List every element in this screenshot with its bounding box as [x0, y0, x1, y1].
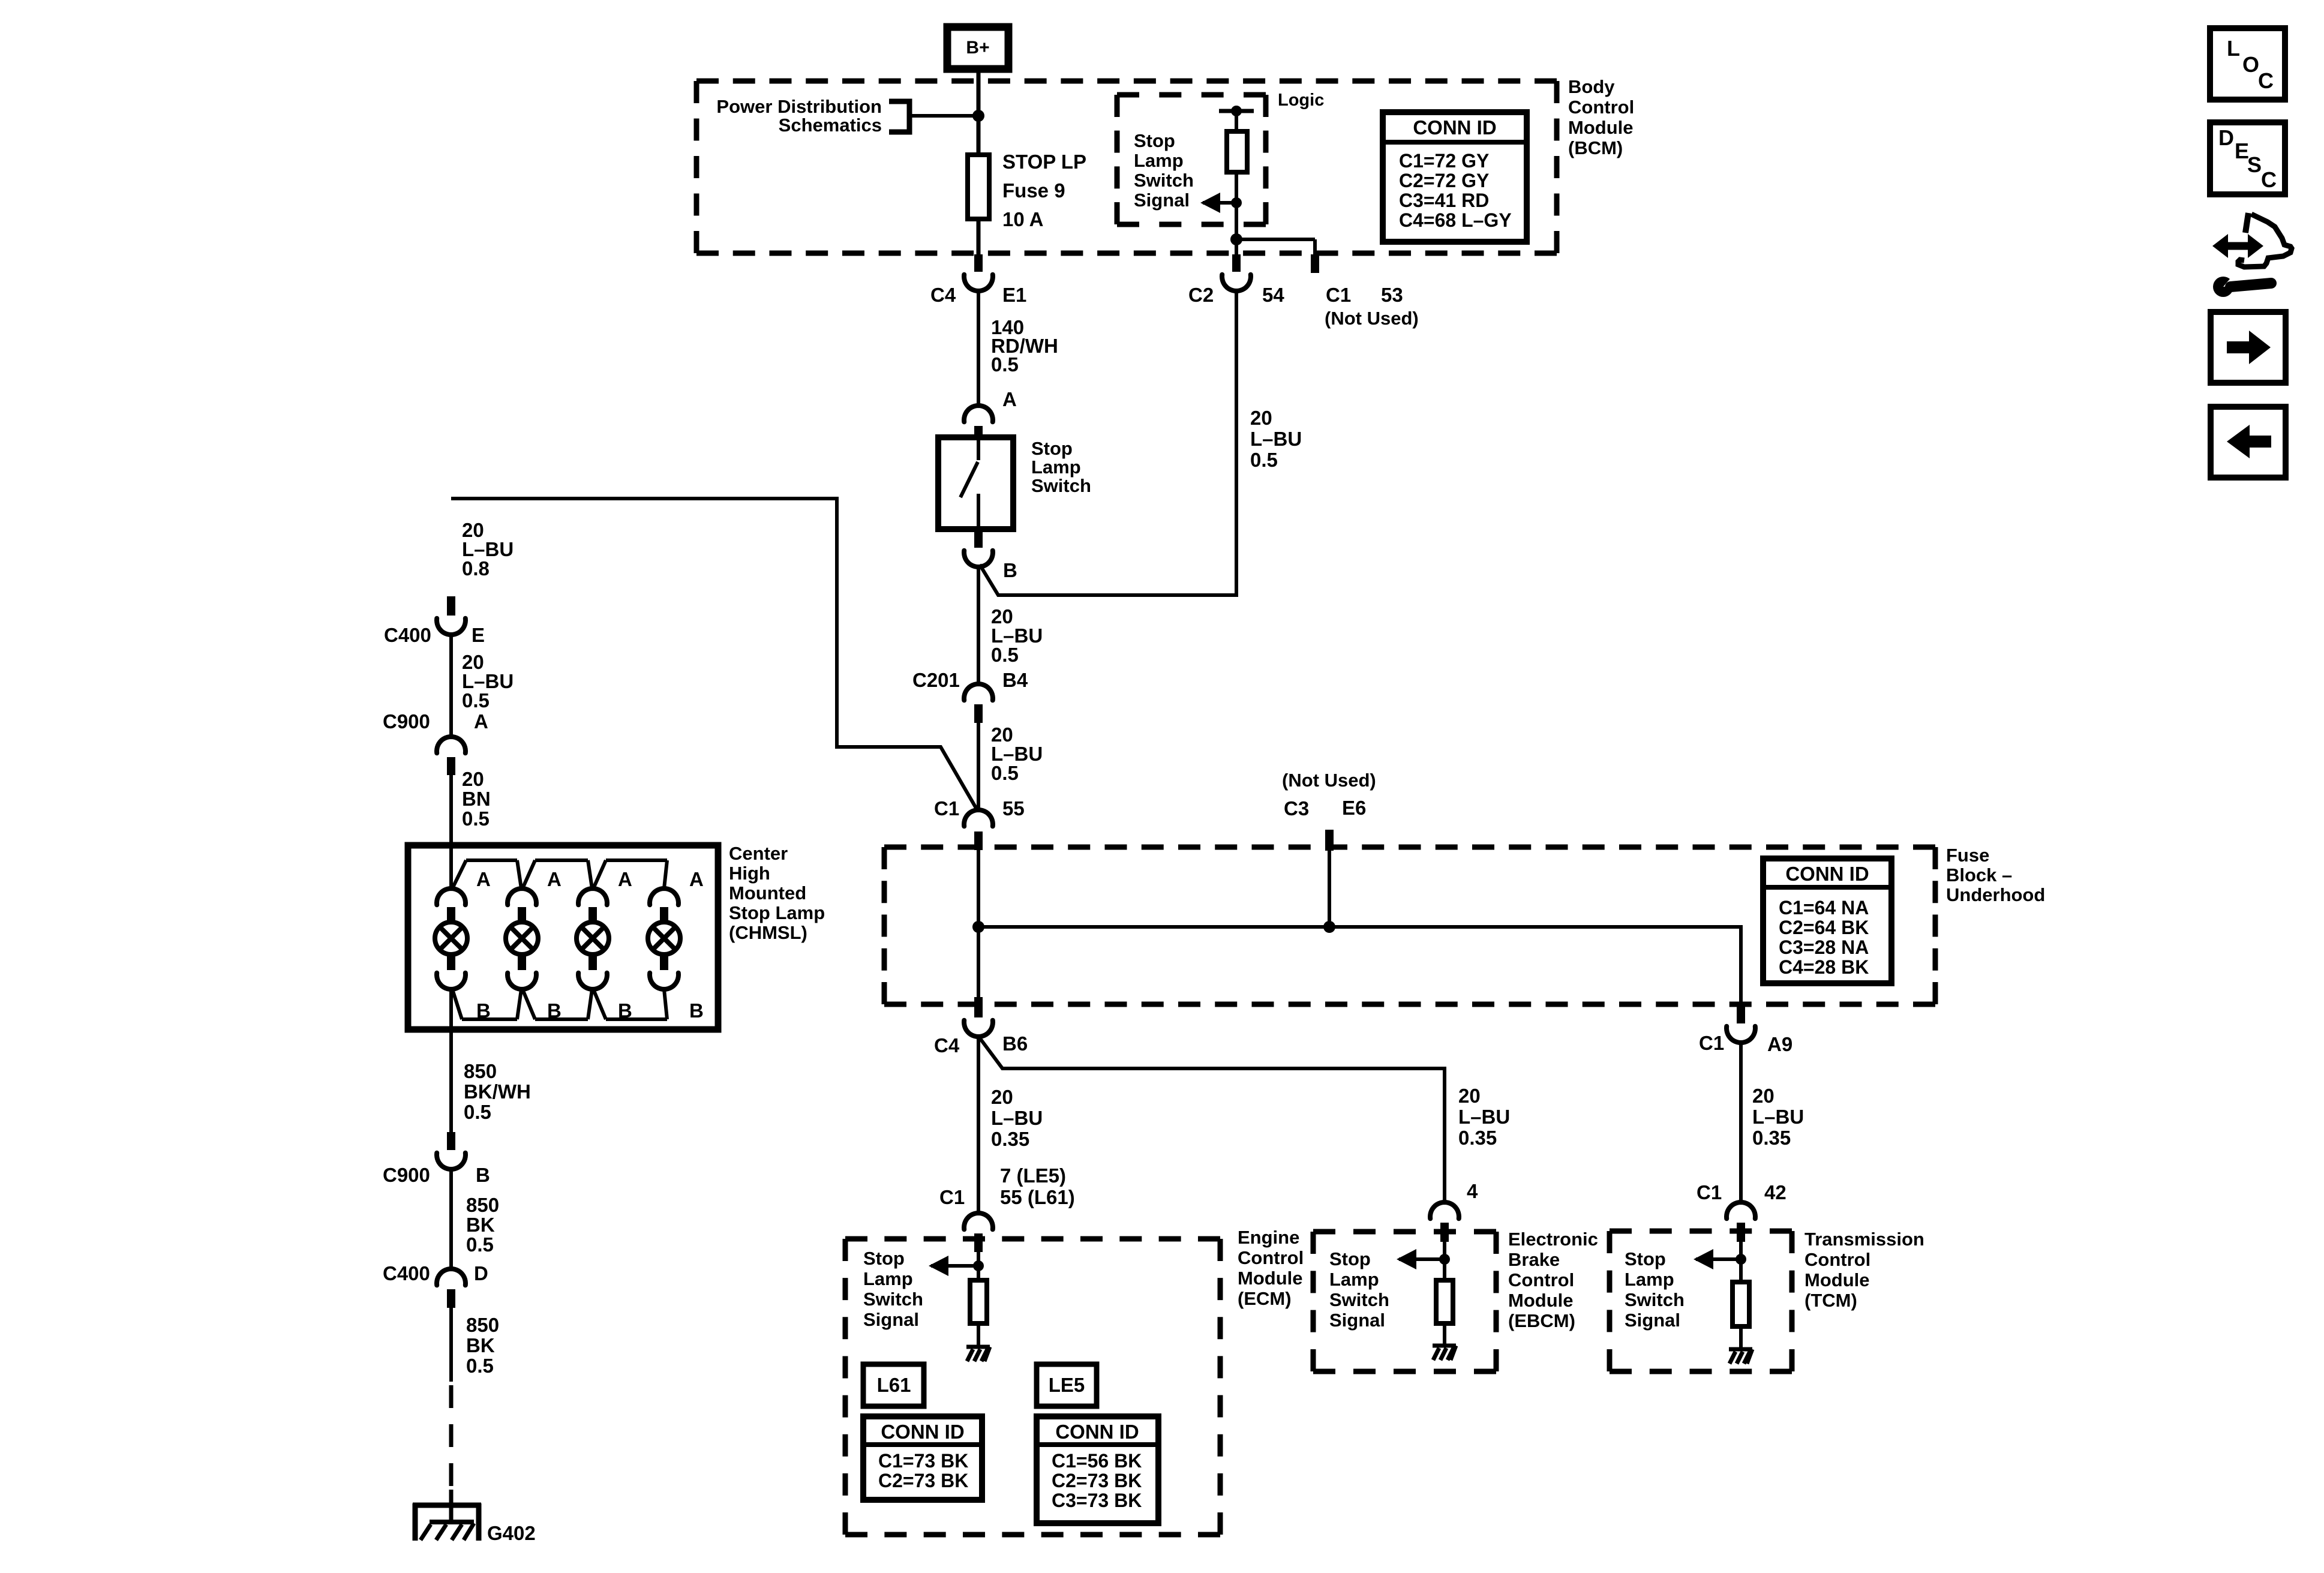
svg-text:0.8: 0.8: [462, 557, 490, 580]
svg-text:C1=56 BK: C1=56 BK: [1052, 1450, 1142, 1472]
svg-text:C900: C900: [383, 1164, 430, 1186]
wire B+ to fuse: [977, 69, 981, 157]
wire resistor to signal node: [1235, 172, 1238, 203]
wire CHMSL to C900 B: [449, 989, 453, 1133]
svg-text:0.35: 0.35: [1458, 1127, 1497, 1149]
svg-text:A: A: [1002, 388, 1017, 410]
connector C201 / B4: [964, 684, 993, 723]
svg-text:D: D: [2218, 125, 2234, 150]
svg-text:B: B: [547, 999, 562, 1022]
svg-text:L61: L61: [877, 1374, 911, 1396]
svg-text:Electronic: Electronic: [1508, 1229, 1598, 1250]
svg-text:C2=72 GY: C2=72 GY: [1399, 170, 1489, 191]
svg-text:Signal: Signal: [1134, 190, 1190, 211]
svg-text:0.5: 0.5: [466, 1233, 494, 1256]
svg-text:Signal: Signal: [1625, 1310, 1680, 1331]
module box BCM (dashed): [696, 79, 1557, 84]
power symbol B+: [947, 27, 1008, 69]
svg-text:0.5: 0.5: [991, 762, 1019, 784]
svg-text:Control: Control: [1804, 1249, 1870, 1270]
svg-text:42: 42: [1764, 1181, 1786, 1203]
connector C1 / 53 (not used): [1311, 254, 1319, 273]
switch stop lamp: [938, 437, 1013, 529]
svg-text:Control: Control: [1568, 97, 1634, 118]
label Stop Lamp Switch: [1031, 438, 1091, 496]
connector B at switch: [964, 529, 993, 567]
wire label 20 L-BU 0.5: [991, 605, 1043, 666]
svg-text:(CHMSL): (CHMSL): [729, 922, 807, 943]
ground in EBCM: [1433, 1344, 1456, 1348]
resistor in TCM: [1733, 1282, 1749, 1326]
svg-text:Switch: Switch: [1625, 1289, 1685, 1310]
svg-text:Lamp: Lamp: [863, 1268, 913, 1289]
label Center High Mounted Stop Lamp (CHMSL): [729, 843, 825, 943]
signal arrow Stop Lamp Switch Signal (ECM): [929, 1256, 984, 1276]
wire pin42 into TCM: [1739, 1242, 1743, 1282]
wire C4 to stop lamp switch A: [977, 291, 980, 406]
svg-text:0.5: 0.5: [462, 807, 490, 830]
wire branch to CHMSL: [451, 499, 978, 811]
svg-text:C: C: [2258, 68, 2274, 93]
bulb lamp 1: [435, 922, 467, 954]
svg-text:20: 20: [1458, 1085, 1481, 1107]
wire C1-55 through fuse block: [972, 850, 984, 997]
label Body Control Module (BCM): [1568, 76, 1634, 158]
svg-text:BK: BK: [466, 1334, 495, 1356]
connector C900 / A: [437, 737, 466, 775]
svg-text:Stop: Stop: [1031, 438, 1073, 459]
connector C1 / 55: [964, 810, 993, 850]
connector C3 / E6 (not used): [1325, 830, 1334, 851]
connector 4 at EBCM: [1430, 1202, 1459, 1242]
part code box LE5: [1037, 1364, 1097, 1406]
wire label 850 BK 0.5 (lower): [466, 1314, 499, 1377]
svg-text:C2=64 BK: C2=64 BK: [1779, 917, 1869, 938]
svg-text:55 (L61): 55 (L61): [1000, 1186, 1075, 1208]
svg-text:Transmission: Transmission: [1804, 1229, 1924, 1250]
svg-text:Module: Module: [1238, 1268, 1303, 1289]
label Engine Control Module (ECM): [1238, 1227, 1304, 1309]
svg-text:53: 53: [1381, 284, 1403, 306]
svg-text:(Not Used): (Not Used): [1282, 770, 1376, 791]
svg-text:Schematics: Schematics: [779, 115, 882, 136]
svg-text:7 (LE5): 7 (LE5): [1000, 1164, 1066, 1187]
svg-text:20: 20: [462, 768, 484, 790]
connector C1 / A9: [1727, 1006, 1755, 1043]
svg-text:A9: A9: [1767, 1033, 1792, 1055]
svg-text:BN: BN: [462, 788, 491, 810]
svg-text:Fuse: Fuse: [1946, 845, 1989, 866]
svg-text:Body: Body: [1568, 76, 1615, 97]
wire C900 to CHMSL lamp 1: [449, 775, 453, 888]
svg-text:850: 850: [466, 1194, 499, 1216]
lamp 2 connector B: [508, 954, 536, 989]
svg-text:Stop: Stop: [1134, 130, 1175, 151]
svg-text:B: B: [476, 1164, 490, 1186]
signal arrow Stop Lamp Switch Signal (EBCM): [1397, 1249, 1450, 1269]
svg-text:Lamp: Lamp: [1329, 1269, 1379, 1290]
svg-text:54: 54: [1262, 284, 1284, 306]
icon LOC: [2210, 28, 2285, 100]
bulb lamp 2: [506, 922, 538, 954]
svg-text:E: E: [472, 624, 485, 646]
svg-text:G402: G402: [487, 1522, 536, 1544]
logic box (dashed): [1117, 92, 1266, 98]
svg-text:Stop: Stop: [1625, 1248, 1666, 1269]
resistor in ECM: [970, 1280, 987, 1323]
svg-text:(TCM): (TCM): [1804, 1290, 1857, 1311]
svg-text:C4=28 BK: C4=28 BK: [1779, 956, 1869, 978]
svg-text:20: 20: [1752, 1085, 1774, 1107]
svg-text:CONN ID: CONN ID: [881, 1421, 964, 1443]
label Electronic Brake Control Module (EBCM): [1508, 1229, 1598, 1331]
bus wire in fuse block: [978, 927, 1741, 1006]
connector C400 / D: [437, 1269, 466, 1308]
icon arrow left: [2211, 407, 2286, 478]
svg-text:D: D: [474, 1262, 488, 1284]
wire C1 into ECM: [977, 1252, 980, 1280]
svg-text:C3: C3: [1284, 797, 1309, 819]
svg-text:850: 850: [464, 1060, 497, 1082]
svg-text:L–BU: L–BU: [991, 1107, 1043, 1129]
svg-text:4: 4: [1467, 1180, 1478, 1202]
svg-text:A: A: [618, 868, 632, 890]
wire logic to C2 and C1-53: [1230, 203, 1315, 255]
svg-text:0.5: 0.5: [464, 1101, 491, 1123]
svg-text:A: A: [474, 710, 488, 733]
svg-text:Switch: Switch: [863, 1289, 923, 1310]
label Stop Lamp Switch Signal (BCM): [1134, 130, 1194, 211]
junction dot at fuse feed: [972, 110, 984, 122]
svg-text:(Not Used): (Not Used): [1325, 308, 1419, 329]
ground G402: [413, 1503, 481, 1541]
connector C2 / 54: [1222, 254, 1251, 291]
svg-text:S: S: [2247, 152, 2262, 177]
svg-text:E6: E6: [1342, 797, 1366, 819]
svg-text:BK/WH: BK/WH: [464, 1080, 531, 1103]
wire resistor to ground (ECM): [977, 1323, 980, 1347]
svg-text:Stop: Stop: [1329, 1248, 1371, 1269]
label Stop Lamp Switch Signal (ECM): [863, 1248, 923, 1330]
svg-text:L–BU: L–BU: [1458, 1106, 1510, 1128]
svg-text:0.35: 0.35: [991, 1128, 1029, 1150]
connector C900 / B: [437, 1132, 466, 1169]
svg-text:55: 55: [1002, 797, 1025, 819]
svg-text:C2: C2: [1188, 284, 1214, 306]
svg-text:B: B: [1003, 559, 1017, 581]
svg-text:C1: C1: [939, 1186, 965, 1208]
svg-text:Power Distribution: Power Distribution: [716, 96, 882, 117]
svg-text:Control: Control: [1508, 1269, 1574, 1290]
wire B6 to ECM C1: [977, 1037, 980, 1213]
svg-text:850: 850: [466, 1314, 499, 1336]
svg-text:A: A: [547, 868, 562, 890]
wire label 20 L-BU 0.8: [462, 519, 514, 580]
svg-text:(BCM): (BCM): [1568, 137, 1623, 158]
svg-text:Block –: Block –: [1946, 864, 2012, 885]
svg-text:C400: C400: [383, 1262, 430, 1284]
svg-text:C3=41 RD: C3=41 RD: [1399, 190, 1489, 211]
table CONN ID fuse block: [1763, 858, 1891, 983]
table CONN ID LE5: [1037, 1416, 1158, 1523]
svg-text:CONN ID: CONN ID: [1413, 116, 1496, 139]
svg-text:STOP LP: STOP LP: [1002, 151, 1086, 173]
svg-text:Center: Center: [729, 843, 788, 864]
svg-text:20: 20: [1250, 407, 1272, 429]
svg-text:Module: Module: [1568, 117, 1634, 138]
wire label 850 BK 0.5: [466, 1194, 499, 1256]
wire resistor to ground (EBCM): [1443, 1323, 1446, 1346]
svg-text:C4: C4: [934, 1034, 960, 1056]
svg-text:10 A: 10 A: [1002, 208, 1043, 230]
label Transmission Control Module (TCM): [1804, 1229, 1924, 1311]
connector C4 / E1: [964, 254, 993, 291]
svg-text:Switch: Switch: [1031, 475, 1091, 496]
module box ECM (dashed): [845, 1236, 1220, 1242]
resistor in BCM logic: [1227, 131, 1247, 172]
svg-text:C1: C1: [934, 797, 959, 819]
connector C1 / 42: [1727, 1202, 1755, 1242]
svg-text:0.5: 0.5: [466, 1355, 494, 1377]
module box Fuse Block - Underhood (dashed): [884, 845, 1935, 850]
svg-text:B+: B+: [966, 38, 989, 58]
lamp 4 connector A: [650, 888, 678, 923]
svg-text:C201: C201: [912, 669, 960, 691]
signal arrow Stop Lamp Switch Signal (TCM): [1694, 1249, 1746, 1269]
signal arrow BCM Stop Lamp Switch Signal: [1200, 193, 1242, 213]
resistor in EBCM: [1436, 1280, 1453, 1323]
svg-text:0.5: 0.5: [462, 689, 490, 712]
svg-text:Module: Module: [1804, 1269, 1870, 1290]
wire resistor to ground (TCM): [1739, 1326, 1743, 1349]
icon vehicle with arrow and wrench: [2212, 213, 2292, 297]
svg-text:(EBCM): (EBCM): [1508, 1310, 1575, 1331]
svg-text:C1: C1: [1697, 1181, 1722, 1203]
lamp module CHMSL box: [408, 845, 718, 1029]
module box EBCM (dashed): [1313, 1229, 1496, 1235]
svg-text:O: O: [2242, 52, 2259, 77]
svg-text:C1=73 BK: C1=73 BK: [878, 1450, 968, 1472]
svg-text:C1: C1: [1326, 284, 1351, 306]
label Stop Lamp Switch Signal (TCM): [1625, 1248, 1685, 1331]
svg-text:Mounted: Mounted: [729, 882, 806, 903]
icon DESC: [2210, 122, 2285, 194]
connector C400 / E: [437, 596, 466, 635]
svg-text:Control: Control: [1238, 1247, 1304, 1268]
svg-text:C400: C400: [384, 624, 431, 646]
svg-text:(ECM): (ECM): [1238, 1288, 1292, 1309]
wire pin4 into EBCM: [1443, 1242, 1446, 1280]
label Stop Lamp Switch Signal (EBCM): [1329, 1248, 1389, 1331]
svg-text:C4: C4: [930, 284, 956, 306]
svg-text:B6: B6: [1002, 1032, 1028, 1055]
bracket Power Distribution Schematics: [716, 96, 909, 136]
svg-text:C1=64 NA: C1=64 NA: [1779, 897, 1869, 918]
icon arrow right: [2211, 312, 2286, 383]
part code box L61: [863, 1364, 924, 1406]
svg-text:LE5: LE5: [1049, 1374, 1085, 1396]
wire C400D to ground G402: [449, 1308, 453, 1522]
svg-text:C3=28 NA: C3=28 NA: [1779, 936, 1869, 958]
svg-text:CONN ID: CONN ID: [1055, 1421, 1139, 1443]
wire B6 branch to EBCM: [980, 1038, 1445, 1202]
svg-text:0.5: 0.5: [991, 353, 1019, 376]
wire label 20 L-BU 0.35 (TCM): [1752, 1085, 1804, 1149]
svg-text:L–BU: L–BU: [1752, 1106, 1804, 1128]
wire label 20 L-BU 0.5 (left): [462, 651, 514, 712]
svg-text:Lamp: Lamp: [1031, 457, 1081, 478]
svg-text:0.35: 0.35: [1752, 1127, 1791, 1149]
lamp 1 connector A: [437, 888, 466, 923]
wire C400 to C900: [449, 635, 453, 737]
wire E6 to bus: [1323, 851, 1335, 933]
svg-text:C900: C900: [383, 710, 430, 733]
svg-text:A: A: [689, 868, 704, 890]
lamp 2 connector A: [508, 888, 536, 923]
svg-text:Brake: Brake: [1508, 1249, 1560, 1270]
svg-text:B4: B4: [1002, 669, 1028, 691]
logic input stub: [1219, 106, 1254, 131]
svg-text:C4=68 L–GY: C4=68 L–GY: [1399, 209, 1512, 231]
svg-text:E1: E1: [1002, 284, 1026, 306]
svg-text:Logic: Logic: [1278, 91, 1324, 110]
lamp 4 connector B: [650, 954, 678, 989]
wire fuse to connector C4 E1: [977, 219, 981, 255]
svg-text:B: B: [689, 999, 704, 1022]
svg-text:20: 20: [991, 1086, 1013, 1108]
ground in TCM: [1729, 1347, 1752, 1352]
svg-text:High: High: [729, 863, 770, 884]
lamp 3 connector A: [578, 888, 607, 923]
wire label 850 BK/WH 0.5: [464, 1060, 531, 1123]
wire label 20 L-BU 0.5 (to BCM): [1250, 407, 1302, 471]
svg-text:C3=73 BK: C3=73 BK: [1052, 1490, 1142, 1511]
svg-text:C2=73 BK: C2=73 BK: [1052, 1470, 1142, 1491]
label Fuse Block - Underhood: [1946, 845, 2045, 905]
wire C900B to C400D: [449, 1169, 453, 1269]
svg-text:Stop: Stop: [863, 1248, 905, 1269]
bulb lamp 4: [648, 922, 680, 954]
svg-text:Signal: Signal: [863, 1309, 919, 1330]
svg-text:Stop Lamp: Stop Lamp: [729, 902, 825, 923]
svg-text:Module: Module: [1508, 1290, 1574, 1311]
wire CHMSL feed bus (top): [452, 860, 667, 888]
svg-text:L: L: [2227, 36, 2240, 61]
svg-text:Engine: Engine: [1238, 1227, 1299, 1248]
svg-text:B: B: [618, 999, 632, 1022]
wire CHMSL ground bus (bottom): [452, 989, 667, 1019]
wire label 20 L-BU 0.35 (EBCM): [1458, 1085, 1510, 1149]
fuse F9 STOP LP 10A: [968, 151, 1086, 230]
connector C4 / B6: [964, 997, 993, 1037]
wire C201 to C1-55: [977, 723, 980, 811]
wire B down to C201: [977, 567, 980, 684]
wire label 20 BN 0.5: [462, 768, 491, 830]
table CONN ID BCM: [1383, 112, 1527, 242]
wire label 140 RD/WH 0.5: [991, 316, 1058, 376]
svg-text:0.5: 0.5: [991, 644, 1019, 666]
svg-text:L–BU: L–BU: [1250, 428, 1302, 450]
svg-text:C: C: [2261, 167, 2277, 192]
wire B to C2-54 of BCM: [980, 291, 1236, 595]
svg-text:0.5: 0.5: [1250, 449, 1278, 471]
wire A9 to TCM: [1739, 1043, 1743, 1202]
module box TCM (dashed): [1610, 1229, 1792, 1234]
svg-text:Lamp: Lamp: [1134, 150, 1184, 171]
svg-text:Fuse 9: Fuse 9: [1002, 179, 1065, 202]
wire label 20 L-BU 0.5 (below C201): [991, 724, 1043, 784]
wire bracket to B+ feed: [909, 114, 978, 118]
wire label 20 L-BU 0.35 (ECM): [991, 1086, 1043, 1150]
svg-text:Switch: Switch: [1134, 170, 1194, 191]
svg-text:A: A: [476, 868, 491, 890]
lamp 1 connector B: [437, 954, 466, 989]
svg-text:CONN ID: CONN ID: [1785, 863, 1869, 885]
svg-text:Lamp: Lamp: [1625, 1269, 1674, 1290]
svg-text:B: B: [476, 999, 491, 1022]
connector A at switch: [964, 406, 993, 439]
bulb lamp 3: [577, 922, 609, 954]
svg-text:BK: BK: [466, 1214, 495, 1236]
lamp 3 connector B: [578, 954, 607, 989]
connector C1 at ECM: [964, 1213, 993, 1252]
svg-text:Switch: Switch: [1329, 1289, 1389, 1310]
svg-text:Signal: Signal: [1329, 1310, 1385, 1331]
ground in ECM: [966, 1345, 990, 1349]
svg-text:Underhood: Underhood: [1946, 884, 2045, 905]
svg-text:C1: C1: [1699, 1032, 1724, 1054]
table CONN ID L61: [863, 1416, 982, 1500]
svg-text:C2=73 BK: C2=73 BK: [878, 1470, 968, 1491]
svg-text:C1=72 GY: C1=72 GY: [1399, 150, 1489, 172]
